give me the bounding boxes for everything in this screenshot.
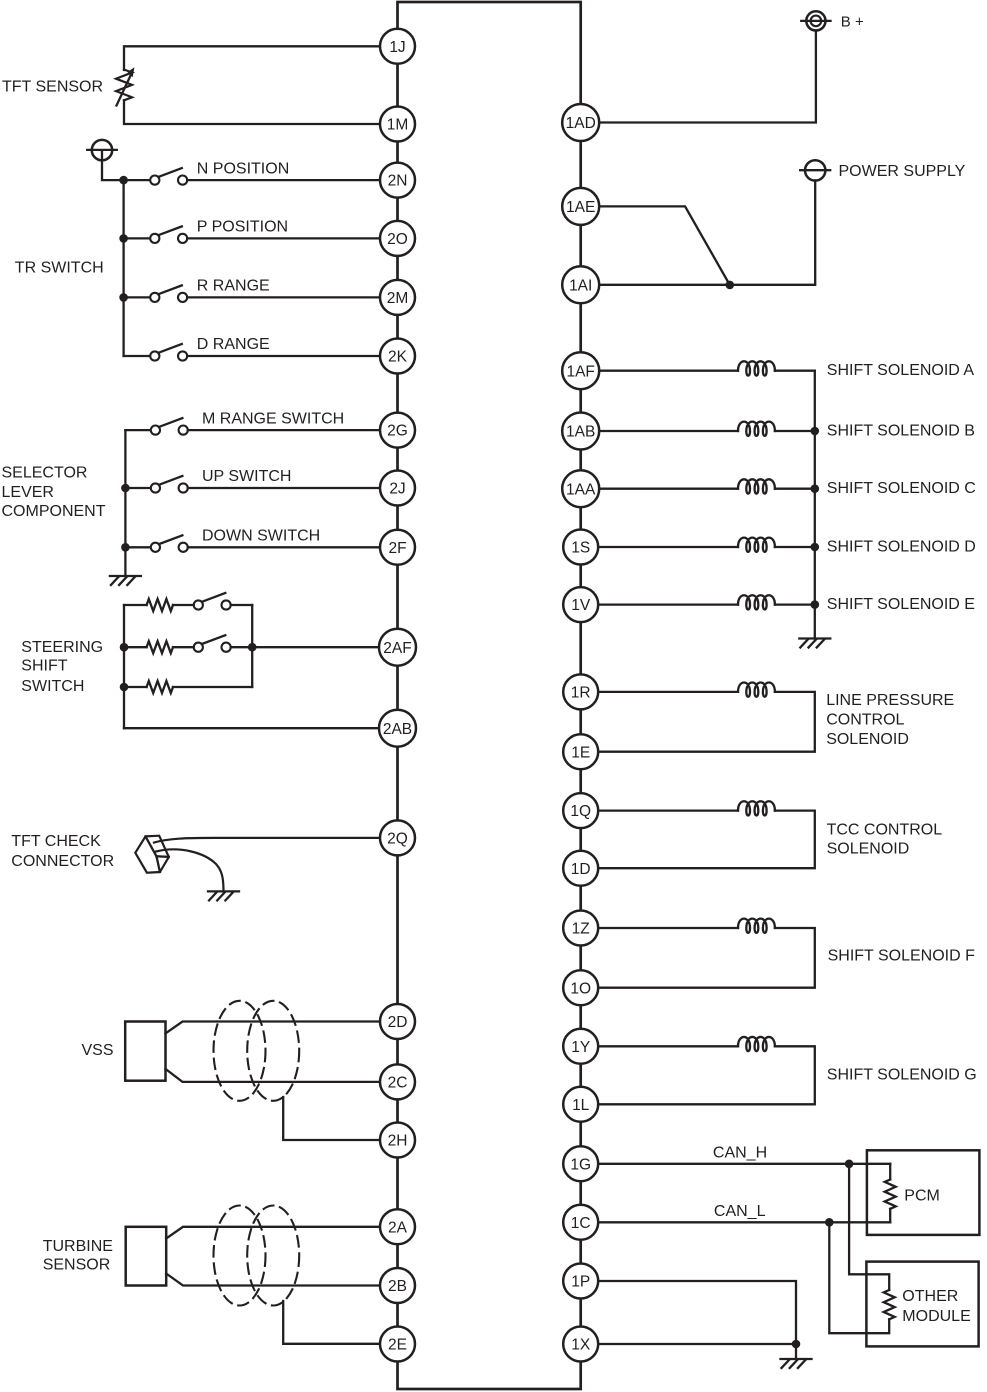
junction dot bus SHIFT SOLENOID E [811, 600, 820, 609]
wire connection point to TR bus [102, 150, 124, 180]
wire N POSITION switch to pin 2N [187, 179, 380, 181]
pin 1S [563, 530, 598, 565]
junction dot bus SHIFT SOLENOID C [811, 484, 820, 493]
label LINE PRESSURE CONTROL SOLENOID [826, 692, 954, 748]
wire pin 1AA to coil [599, 488, 738, 490]
svg-text:SHIFT SOLENOID F: SHIFT SOLENOID F [828, 948, 976, 965]
wire other module resistor to CAN_L [829, 1222, 889, 1333]
svg-text:1C: 1C [571, 1215, 591, 1232]
wire solenoid bank common bus [814, 371, 816, 639]
pin 1Y [563, 1029, 598, 1064]
pin 2F [380, 530, 415, 565]
pin 1O [563, 970, 598, 1005]
label D RANGE [197, 336, 270, 353]
wire CAN_H pin 1G to PCM [599, 1163, 890, 1165]
svg-text:TR SWITCH: TR SWITCH [15, 259, 104, 276]
external connection point symbol (TR switch feed) [87, 140, 117, 160]
wire selector bus to DOWN SWITCH [125, 546, 150, 548]
label SHIFT SOLENOID B [827, 422, 975, 439]
svg-text:OTHER: OTHER [902, 1288, 958, 1305]
wire coil to bus (SHIFT SOLENOID B) [775, 430, 815, 432]
wire selector bus to UP SWITCH [125, 487, 150, 489]
coil line pressure control solenoid [738, 683, 775, 697]
power supply terminal symbol [800, 160, 830, 180]
pin 2N [380, 163, 415, 198]
svg-text:B +: B + [841, 14, 864, 31]
switch steering row 1 [194, 593, 231, 610]
pin 1J [380, 29, 415, 64]
svg-text:1Y: 1Y [571, 1039, 590, 1056]
label SHIFT SOLENOID D [827, 538, 976, 555]
svg-text:1E: 1E [571, 744, 590, 761]
wire selector bus to M RANGE SWITCH [125, 429, 150, 431]
svg-text:TCC CONTROL: TCC CONTROL [827, 821, 943, 838]
wire pin 1V to coil [599, 603, 738, 605]
svg-text:1Q: 1Q [570, 803, 591, 820]
wire pin 1AE branch [599, 206, 730, 285]
svg-text:2C: 2C [388, 1075, 408, 1092]
wire steering right bus [251, 605, 253, 687]
B+ terminal symbol [801, 11, 830, 30]
svg-text:1X: 1X [571, 1337, 591, 1354]
svg-text:1D: 1D [571, 861, 591, 878]
switch P POSITION [150, 226, 187, 243]
pin 1C [563, 1205, 598, 1240]
wire DOWN SWITCH to pin 2F [188, 546, 380, 548]
VSS sensor box [125, 1022, 165, 1081]
svg-text:2Q: 2Q [387, 831, 408, 848]
pin 2K [380, 339, 415, 374]
svg-text:1O: 1O [570, 980, 591, 997]
pin 2J [380, 471, 415, 506]
label POWER SUPPLY [839, 163, 966, 180]
wire pin 1S to coil [599, 546, 738, 548]
junction dot selector DOWN row [121, 543, 130, 552]
svg-text:SHIFT: SHIFT [21, 658, 67, 675]
svg-text:CAN_H: CAN_H [713, 1144, 767, 1161]
wire CAN_H drop to other module [849, 1164, 889, 1290]
svg-text:1AE: 1AE [566, 199, 595, 216]
wire TR bus to R RANGE switch [124, 296, 151, 298]
pin 2AB [379, 710, 416, 747]
switch DOWN SWITCH [151, 535, 188, 552]
svg-text:PCM: PCM [904, 1187, 940, 1204]
svg-text:STEERING: STEERING [21, 639, 103, 656]
label TURBINE SENSOR [43, 1238, 113, 1274]
wire pin 1X to ground node [598, 1343, 796, 1345]
label N POSITION [197, 160, 289, 177]
svg-text:SHIFT SOLENOID D: SHIFT SOLENOID D [827, 538, 976, 555]
pin 2D [380, 1004, 415, 1039]
svg-text:1AD: 1AD [566, 115, 596, 132]
svg-text:MODULE: MODULE [902, 1308, 970, 1325]
wire VSS to pin 2C [166, 1069, 381, 1082]
label VSS [82, 1042, 114, 1059]
label M RANGE SWITCH [202, 410, 344, 427]
junction dot bus SHIFT SOLENOID B [811, 427, 820, 436]
label UP SWITCH [202, 468, 291, 485]
TCM connector body outline [398, 2, 581, 1389]
pin 2A [380, 1209, 415, 1244]
wire CAN_L pin 1C to PCM [599, 1221, 890, 1223]
switch M RANGE SWITCH [151, 418, 188, 435]
junction dot TR bus P row [119, 234, 128, 243]
label CAN_L [714, 1203, 766, 1220]
pin 1R [563, 674, 598, 709]
svg-text:2M: 2M [387, 290, 409, 307]
svg-text:2E: 2E [388, 1337, 407, 1354]
pin 1E [563, 734, 598, 769]
resistor PCM termination [885, 1164, 896, 1223]
svg-text:SWITCH: SWITCH [21, 678, 84, 695]
svg-text:1J: 1J [389, 39, 405, 56]
wire TR switch common bus [122, 180, 124, 356]
svg-text:1AI: 1AI [569, 277, 592, 294]
wire VSS shield to pin 2H [283, 1097, 380, 1140]
svg-text:2O: 2O [387, 231, 408, 248]
svg-text:2J: 2J [389, 481, 405, 498]
wire coil to bus (SHIFT SOLENOID E) [775, 603, 815, 605]
wire pin to coil (shift solenoid F) [599, 927, 738, 929]
pin 1X [563, 1327, 598, 1362]
svg-text:R RANGE: R RANGE [197, 278, 270, 295]
wire coil return loop (TCC control solenoid) [599, 811, 815, 869]
wire turbine sensor to pin 2A [166, 1227, 380, 1239]
wire coil to bus (SHIFT SOLENOID A) [775, 370, 815, 372]
pin 2B [380, 1268, 415, 1303]
svg-text:2G: 2G [387, 423, 408, 440]
wire UP SWITCH to pin 2J [188, 487, 380, 489]
svg-text:1AB: 1AB [566, 424, 595, 441]
svg-text:1AA: 1AA [566, 481, 596, 498]
junction dot 1P/1X node [792, 1340, 801, 1349]
junction dot steering row2 left [120, 643, 129, 652]
label SHIFT SOLENOID A [827, 362, 975, 379]
wire TR bus to D RANGE switch [124, 355, 151, 357]
label B + [841, 14, 864, 31]
wire steering left bus [123, 605, 125, 728]
junction dot 1AE/1AI node [726, 281, 735, 290]
pin 1AA [562, 470, 599, 507]
pin 1Z [563, 911, 598, 946]
coil TCC control solenoid [738, 801, 775, 815]
svg-text:SELECTOR: SELECTOR [2, 465, 88, 482]
svg-text:UP SWITCH: UP SWITCH [202, 468, 291, 485]
pin 2Q [380, 820, 415, 855]
pin 1D [563, 851, 598, 886]
wire TR bus to P POSITION switch [124, 237, 151, 239]
label R RANGE [197, 278, 270, 295]
resistor steering row 3 [147, 681, 173, 693]
label SHIFT SOLENOID E [827, 596, 975, 613]
junction dot steering row2 right [248, 643, 257, 652]
coil SHIFT SOLENOID B [738, 422, 775, 436]
wire pin 1AB to coil [599, 430, 738, 432]
wire steering row 1 [124, 604, 252, 606]
wire pin to coil (TCC control solenoid) [599, 809, 738, 811]
wire steering row 2 to pin 2AF [124, 646, 379, 648]
coil SHIFT SOLENOID A [738, 361, 775, 375]
pin 2G [380, 413, 415, 448]
label TFT CHECK CONNECTOR [11, 833, 114, 870]
wire turbine shield to pin 2E [283, 1301, 380, 1344]
svg-text:SHIFT SOLENOID G: SHIFT SOLENOID G [827, 1066, 977, 1083]
wire VSS to pin 2D [166, 1022, 381, 1034]
wire TFT check connector to ground [156, 849, 224, 891]
pin 1G [563, 1146, 598, 1181]
cable shield VSS (dashed ellipses) [214, 1001, 300, 1101]
svg-text:P POSITION: P POSITION [197, 219, 288, 236]
label P POSITION [197, 219, 288, 236]
coil shift solenoid G [738, 1037, 775, 1051]
pin 1V [563, 587, 598, 622]
svg-text:TURBINE: TURBINE [43, 1238, 113, 1255]
label OTHER MODULE [902, 1288, 970, 1325]
svg-text:2A: 2A [388, 1219, 408, 1236]
cable shield turbine (dashed ellipses) [214, 1206, 300, 1306]
svg-text:2AB: 2AB [383, 721, 412, 738]
wire B+ to pin 1AD [599, 31, 816, 123]
label SHIFT SOLENOID G [827, 1066, 977, 1083]
wire pin 1P to ground node [598, 1281, 796, 1344]
switch UP SWITCH [151, 476, 188, 493]
svg-text:1M: 1M [387, 117, 409, 134]
svg-text:POWER SUPPLY: POWER SUPPLY [839, 163, 966, 180]
wire coil to bus (SHIFT SOLENOID C) [775, 488, 815, 490]
svg-text:CONTROL: CONTROL [826, 711, 904, 728]
wire coil return loop (shift solenoid G) [599, 1046, 815, 1104]
pin 1AF [562, 352, 599, 389]
svg-text:1V: 1V [571, 597, 591, 614]
pin 2C [380, 1064, 415, 1099]
svg-text:1P: 1P [571, 1274, 590, 1291]
junction dot CAN_H [845, 1160, 854, 1169]
svg-text:1R: 1R [571, 685, 591, 702]
PCM box [867, 1150, 980, 1235]
svg-text:LINE PRESSURE: LINE PRESSURE [826, 692, 954, 709]
svg-text:SENSOR: SENSOR [43, 1257, 111, 1274]
wire D RANGE switch to pin 2K [187, 355, 380, 357]
resistor steering row 2 [147, 641, 173, 653]
label SHIFT SOLENOID F [828, 948, 976, 965]
wire pin to coil (line pressure control solenoid) [599, 691, 738, 693]
svg-text:1AF: 1AF [566, 363, 594, 380]
svg-text:CONNECTOR: CONNECTOR [11, 853, 114, 870]
svg-text:1G: 1G [570, 1156, 591, 1173]
pin 1AI [562, 266, 599, 303]
label TCC CONTROL SOLENOID [827, 821, 943, 857]
pin 2M [380, 280, 415, 315]
wire coil to bus (SHIFT SOLENOID D) [775, 546, 815, 548]
pin 2O [380, 221, 415, 256]
wire 1J to TFT sensor top [124, 46, 380, 70]
svg-text:SHIFT SOLENOID A: SHIFT SOLENOID A [827, 362, 975, 379]
wire power supply to pin 1AI [599, 180, 815, 284]
svg-text:LEVER: LEVER [2, 484, 54, 501]
svg-text:SOLENOID: SOLENOID [827, 841, 910, 858]
pin 1P [563, 1264, 598, 1299]
ground solenoid bank [799, 639, 830, 648]
ground TFT check connector [208, 891, 239, 900]
pin 1L [563, 1087, 598, 1122]
coil SHIFT SOLENOID C [738, 479, 775, 493]
pin 1AE [562, 188, 599, 225]
wire M RANGE SWITCH to pin 2G [188, 429, 380, 431]
switch N POSITION [150, 168, 187, 185]
wire turbine sensor to pin 2B [166, 1274, 380, 1286]
label PCM [904, 1187, 940, 1204]
wire node to ground [795, 1344, 797, 1359]
OTHER MODULE box [866, 1262, 978, 1347]
svg-text:SHIFT SOLENOID E: SHIFT SOLENOID E [827, 596, 975, 613]
label CAN_H [713, 1144, 767, 1161]
turbine sensor box [126, 1227, 167, 1286]
label DOWN SWITCH [202, 528, 320, 545]
resistor steering row 1 [147, 599, 173, 611]
wire P POSITION switch to pin 2O [187, 237, 380, 239]
label TFT SENSOR [2, 79, 103, 96]
junction dot bus SHIFT SOLENOID D [811, 543, 820, 552]
wire steering row 3 [124, 686, 252, 688]
svg-text:TFT CHECK: TFT CHECK [11, 833, 101, 850]
coil shift solenoid F [738, 919, 775, 933]
svg-text:SHIFT SOLENOID C: SHIFT SOLENOID C [827, 480, 976, 497]
connector TFT check symbol [135, 836, 169, 873]
svg-text:DOWN SWITCH: DOWN SWITCH [202, 528, 320, 545]
switch steering row 2 [194, 635, 231, 652]
wire selector common bus [124, 430, 126, 576]
svg-text:2D: 2D [388, 1014, 408, 1031]
junction dot steering row3 left [120, 683, 129, 692]
svg-text:1Z: 1Z [572, 921, 590, 938]
wire pin 1AF to coil [599, 370, 738, 372]
pin 1M [380, 107, 415, 142]
svg-text:CAN_L: CAN_L [714, 1203, 766, 1220]
wire coil return loop (shift solenoid F) [599, 928, 815, 988]
wire coil return loop (line pressure control solenoid) [599, 692, 815, 752]
svg-text:N POSITION: N POSITION [197, 160, 289, 177]
svg-text:D RANGE: D RANGE [197, 336, 270, 353]
svg-text:2H: 2H [388, 1133, 408, 1150]
junction dot TR bus N row [119, 176, 128, 185]
svg-text:M RANGE SWITCH: M RANGE SWITCH [202, 410, 344, 427]
svg-text:2B: 2B [388, 1278, 407, 1295]
switch R RANGE [150, 285, 187, 302]
svg-text:2N: 2N [388, 173, 408, 190]
resistor other module termination [884, 1290, 895, 1319]
svg-text:VSS: VSS [82, 1042, 114, 1059]
pin 2H [380, 1123, 415, 1158]
pin 1AB [562, 413, 599, 450]
svg-text:SOLENOID: SOLENOID [826, 731, 909, 748]
svg-text:2K: 2K [388, 349, 408, 366]
wire steering bus to pin 2AB [124, 727, 379, 729]
coil SHIFT SOLENOID E [738, 595, 775, 609]
ground 1P/1X [781, 1359, 812, 1368]
wire pin to coil (shift solenoid G) [599, 1045, 738, 1047]
ground selector lever [110, 576, 141, 585]
label SELECTOR LEVER COMPONENT [2, 465, 106, 521]
svg-text:TFT SENSOR: TFT SENSOR [2, 79, 103, 96]
label TR SWITCH [15, 259, 104, 276]
switch D RANGE [150, 344, 187, 361]
pin 2AF [379, 629, 416, 666]
pin 1Q [563, 793, 598, 828]
svg-text:2AF: 2AF [383, 640, 411, 657]
svg-text:1L: 1L [572, 1097, 590, 1114]
pin 1AD [562, 104, 599, 141]
wire TFT check connector to pin 2Q [154, 838, 380, 843]
wire R RANGE switch to pin 2M [187, 296, 380, 298]
svg-text:2F: 2F [388, 540, 406, 557]
junction dot TR bus R row [119, 293, 128, 302]
thermistor TFT sensor symbol [116, 67, 135, 105]
label STEERING SHIFT SWITCH [21, 639, 103, 695]
svg-text:SHIFT SOLENOID B: SHIFT SOLENOID B [827, 422, 975, 439]
wire TFT sensor bottom to 1M [124, 100, 380, 124]
junction dot CAN_L [825, 1218, 834, 1227]
coil SHIFT SOLENOID D [738, 538, 775, 552]
svg-text:1S: 1S [571, 540, 590, 557]
label SHIFT SOLENOID C [827, 480, 976, 497]
pin 2E [380, 1327, 415, 1362]
junction dot selector UP row [121, 484, 130, 493]
svg-text:COMPONENT: COMPONENT [2, 503, 106, 520]
wire TR bus to N POSITION switch [124, 179, 151, 181]
